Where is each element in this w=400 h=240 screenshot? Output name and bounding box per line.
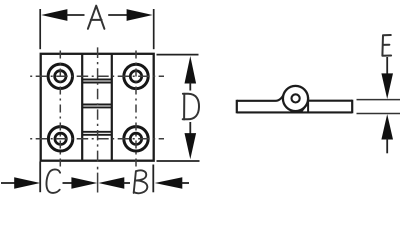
hole BR outer <box>124 127 148 151</box>
dim C tail left <box>1 182 15 184</box>
hole TR outer <box>124 64 148 88</box>
side view left end cap <box>236 100 238 114</box>
knuckle joint pair 2 <box>82 104 112 106</box>
dim C line <box>63 182 75 184</box>
pin hole circle <box>292 94 300 102</box>
dim A line left <box>67 14 85 16</box>
dim D arrow down <box>185 133 197 159</box>
centerline top hole row <box>30 75 164 77</box>
dim D arrow up <box>185 56 197 84</box>
dim C arrow inside-right <box>71 177 97 189</box>
knuckle shading diagonal <box>301 103 308 112</box>
hole TL outer <box>48 64 72 88</box>
dim A extension line right <box>153 9 155 49</box>
hole BR inner <box>130 133 141 144</box>
dim E arrow down <box>381 73 393 99</box>
dim B extension line (plate right edge extended) <box>152 165 154 193</box>
side view right end cap <box>351 100 353 114</box>
label D <box>183 94 199 120</box>
dim E tail lower <box>386 139 388 154</box>
knuckle right line <box>111 54 113 161</box>
dim B arrow outside-right <box>155 177 183 189</box>
dim A line right <box>108 14 127 16</box>
dim C arrow outside-left <box>14 177 40 189</box>
label C <box>46 169 60 192</box>
dim D extension line top <box>157 54 199 56</box>
hinge plate outline <box>41 54 154 161</box>
dim B arrow inside-left <box>98 177 124 189</box>
dim C extension line (plate left edge extended) <box>39 162 41 193</box>
centerline vertical axis <box>97 47 99 192</box>
dim B tail right <box>182 182 190 184</box>
label E <box>382 35 391 56</box>
side view top edge right leaf <box>308 100 352 102</box>
centerline bottom hole row <box>30 138 164 140</box>
centerline left hole column <box>59 51 61 168</box>
label B <box>134 170 148 193</box>
dim E arrow up <box>381 114 393 139</box>
side view top edge left leaf with fillet <box>237 94 284 101</box>
knuckle boss circle <box>283 86 308 111</box>
hole TR inner <box>130 71 141 82</box>
knuckle left line <box>81 54 83 161</box>
hole TL inner <box>55 71 66 82</box>
knuckle joint pair 3 <box>82 131 112 133</box>
dim D line lower <box>189 122 191 134</box>
dim E extension line bottom <box>357 113 400 115</box>
dim E tail upper <box>386 57 388 75</box>
side view bottom edge <box>237 111 352 113</box>
centerline right hole column <box>135 51 137 168</box>
dim E extension line top <box>357 99 400 101</box>
knuckle right tangent edge <box>307 97 309 112</box>
dim A extension line left <box>39 9 41 49</box>
dim D line upper <box>189 83 191 91</box>
dim A arrow left <box>41 9 67 21</box>
hole BL outer <box>48 127 72 151</box>
dim B line <box>124 182 131 184</box>
knuckle joint pair 1 <box>82 79 112 81</box>
label A <box>88 6 105 29</box>
dim D extension line bottom <box>157 160 200 162</box>
dim A arrow right <box>127 9 153 21</box>
hole BL inner <box>55 133 66 144</box>
